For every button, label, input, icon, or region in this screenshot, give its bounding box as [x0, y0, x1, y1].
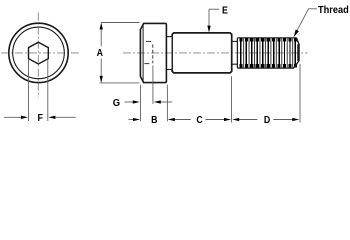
dimension E leader [207, 9, 219, 32]
F label [38, 112, 43, 124]
inner circle (head chamfer, end view) [13, 27, 65, 79]
G dimension right arrow [154, 100, 172, 103]
svg-text:F: F [38, 112, 43, 124]
F extension line left [28, 59, 30, 121]
thread flank lines [241, 38, 296, 67]
outer circle (head outside diameter, end view) [9, 23, 68, 82]
svg-text:G: G [113, 98, 121, 110]
shared arrow B right / C left [168, 118, 191, 121]
D left arrow [232, 118, 257, 121]
svg-text:A: A [97, 47, 103, 59]
extension line socket depth (G right) [152, 66, 154, 104]
svg-text:Thread: Thread [318, 5, 349, 17]
Thread leader line [294, 9, 317, 38]
thread tip end face [297, 44, 300, 61]
dimension A extension line bottom [100, 82, 140, 84]
thread left face [236, 38, 238, 68]
dimension A extension line top [101, 22, 140, 24]
extension line head left (B/G) [140, 85, 142, 122]
svg-text:E: E [222, 5, 228, 17]
shoulder outline [172, 33, 232, 73]
vertical centerline of end view [37, 13, 39, 98]
C label [196, 115, 202, 127]
E label [222, 5, 228, 17]
thread end chamfer tip [294, 38, 299, 68]
C right arrow [206, 118, 232, 121]
hex socket hidden lines (side view) [144, 41, 152, 63]
F extension line right [47, 59, 49, 121]
G label [113, 98, 121, 110]
svg-text:B: B [151, 114, 157, 126]
thread relief neck [232, 41, 238, 64]
Thread label [318, 5, 349, 17]
extension line shoulder end (C/D) [231, 76, 233, 122]
D right arrow [273, 118, 299, 121]
horizontal centerline of end view [1, 52, 80, 54]
hex socket (end view) [29, 42, 49, 64]
side view centerline [123, 52, 308, 54]
B label [151, 114, 157, 126]
A label [97, 47, 103, 59]
svg-text:D: D [264, 115, 270, 127]
undercut groove below head [166, 37, 172, 70]
head outline (side view) [140, 23, 166, 82]
head chamfer line [142, 24, 144, 83]
extension line thread end (D) [299, 64, 301, 123]
thread crest blocks [241, 38, 296, 67]
B dimension left arrow [129, 118, 141, 121]
thread root lines (half pitch) [244, 39, 293, 68]
F right arrow [48, 116, 75, 119]
thread crest bottom line [237, 67, 294, 69]
D label [264, 115, 270, 127]
extension line head right (B/C) [166, 85, 168, 122]
dimension A line with arrows [100, 23, 103, 83]
G dimension left arrow [125, 100, 140, 103]
F left arrow [4, 116, 28, 119]
thread crest top line [237, 37, 296, 39]
svg-text:C: C [196, 115, 202, 127]
